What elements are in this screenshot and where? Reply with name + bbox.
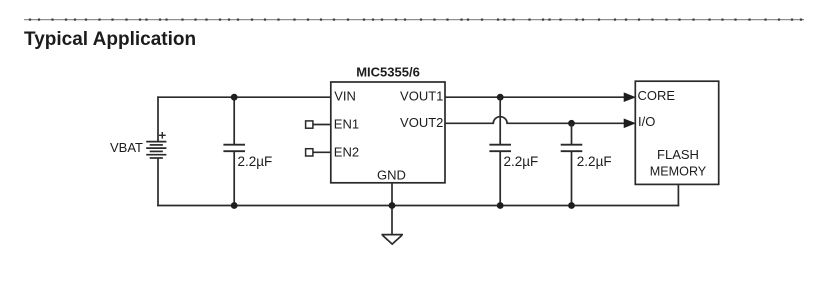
svg-text:EN1: EN1	[334, 116, 359, 131]
label MEMORY	[650, 164, 707, 178]
svg-text:CORE: CORE	[638, 88, 676, 103]
op-amp U1 MIC5355/6 box	[331, 82, 445, 183]
svg-text:2.2µF: 2.2µF	[577, 154, 612, 169]
wire battery top vertical	[157, 96, 159, 141]
svg-text:EN2: EN2	[334, 144, 359, 159]
wire VOUT2 with hop to I/O	[445, 117, 626, 124]
battery plus sign	[159, 132, 166, 139]
pin label VIN	[334, 89, 356, 104]
svg-text:VOUT1: VOUT1	[400, 89, 443, 104]
wire bottom ground rail	[157, 205, 679, 207]
label C2 2.2uF	[504, 154, 539, 169]
wire capacitor C3 upper	[571, 123, 573, 144]
svg-text:I/O: I/O	[638, 114, 655, 129]
EN2 input terminal square	[306, 149, 313, 156]
wire battery bottom vertical	[157, 158, 159, 206]
svg-text:MEMORY: MEMORY	[650, 164, 707, 178]
wire VIN top rail	[157, 96, 331, 98]
top dash-dot rule	[24, 19, 804, 21]
EN1 input terminal square	[306, 121, 313, 128]
pin label VOUT2	[400, 115, 443, 130]
svg-text:2.2µF: 2.2µF	[504, 154, 539, 169]
svg-text:VBAT: VBAT	[110, 140, 143, 155]
wire FLASH MEMORY to ground rail	[677, 184, 679, 206]
title Typical Application	[24, 29, 196, 50]
wire GND pin vertical	[391, 183, 393, 234]
label FLASH	[657, 147, 699, 162]
label MIC5355/6	[356, 64, 420, 79]
junction dot VOUT2/C3	[568, 120, 575, 127]
junction dot C1/ground rail	[231, 202, 238, 209]
svg-text:VIN: VIN	[334, 89, 356, 104]
pin label I/O	[638, 114, 655, 129]
svg-text:MIC5355/6: MIC5355/6	[356, 64, 420, 79]
pin label CORE	[638, 88, 676, 103]
arrowhead I/O	[624, 119, 634, 127]
label C3 2.2uF	[577, 154, 612, 169]
battery VBAT	[146, 142, 166, 158]
wire EN1	[313, 124, 331, 126]
pin label GND	[377, 167, 406, 182]
junction dot GND/ground rail	[389, 202, 396, 209]
capacitor C3	[561, 145, 583, 152]
label C1 2.2uF	[238, 154, 273, 169]
junction dot C3/ground rail	[568, 202, 575, 209]
junction dot VOUT1/C2	[497, 94, 504, 101]
wire EN2	[313, 151, 331, 153]
pin label VOUT1	[400, 89, 443, 104]
svg-text:2.2µF: 2.2µF	[238, 154, 273, 169]
label VBAT	[110, 140, 143, 155]
FLASH MEMORY box	[635, 81, 718, 184]
capacitor C1	[223, 145, 245, 152]
svg-text:Typical Application: Typical Application	[24, 29, 196, 50]
arrowhead CORE	[624, 93, 634, 101]
capacitor C2	[489, 145, 511, 152]
wire capacitor C1 upper	[233, 97, 235, 144]
junction dot VIN/C1	[231, 94, 238, 101]
junction dot C2/ground rail	[497, 202, 504, 209]
wire capacitor C2 lower	[499, 151, 501, 205]
wire capacitor C2 upper (crosses under hop)	[499, 97, 501, 144]
svg-text:GND: GND	[377, 167, 406, 182]
pin label EN2	[334, 144, 359, 159]
svg-text:FLASH: FLASH	[657, 147, 699, 162]
pin label EN1	[334, 116, 359, 131]
wire capacitor C1 lower	[233, 151, 235, 205]
ground symbol	[381, 235, 403, 245]
svg-text:VOUT2: VOUT2	[400, 115, 443, 130]
wire capacitor C3 lower	[571, 151, 573, 205]
wire VOUT1 to CORE	[445, 96, 626, 98]
